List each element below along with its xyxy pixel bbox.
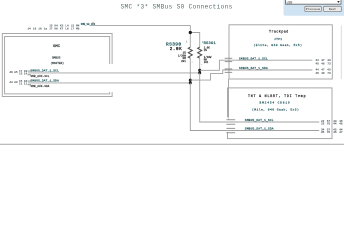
svg-text:(Mile, 840 Gaab, 5x5): (Mile, 840 Gaab, 5x5) [252,108,299,112]
pin stub marks row2 [27,80,31,83]
top pin numbers of GMC [28,25,80,31]
node: SCL at RS391 (in) [198,71,201,74]
svg-text:76: 76 [327,131,331,134]
svg-text:46: 46 [321,72,325,75]
svg-text:JTP1: JTP1 [274,38,282,41]
svg-text:73: 73 [327,62,331,65]
svg-text:A5: A5 [14,71,18,74]
svg-text:L7: L7 [71,27,75,30]
svg-text:1a: 1a [44,27,48,30]
svg-text:A6: A6 [10,71,14,74]
svg-text:76: 76 [327,123,331,126]
svg-text:TNT & NLBRT, TDI Temp: TNT & NLBRT, TDI Temp [248,94,306,98]
svg-text:Trackpad: Trackpad [269,29,289,34]
border break at port area [108,64,113,92]
button Next [324,6,342,11]
node: SCL at RS391 (out) [198,69,201,72]
svg-text:45: 45 [316,62,320,65]
svg-text:23: 23 [321,123,325,126]
toolbar panel (top right) [284,0,344,16]
node: junction on top rail [189,31,192,34]
svg-text:44: 44 [333,123,337,126]
wire: SCL across sensor border [224,121,232,123]
svg-text:I2: I2 [24,82,28,85]
svg-text:16: 16 [38,27,42,30]
svg-text:I3: I3 [19,72,23,75]
GMC row2 pin numbers [10,80,28,86]
svg-text:SMBUS_DAT_1_SCL: SMBUS_DAT_1_SCL [239,58,268,61]
pin tap marks trackpad row1 [225,57,233,60]
svg-text:J7: J7 [49,27,53,30]
dropdown select [286,0,342,4]
border break at sensor port area [227,117,229,132]
pin tap marks sensor row1 [226,118,235,121]
svg-text:2.0K: 2.0K [170,48,182,52]
svg-text:SMBUS_DAT_1_SDA: SMBUS_DAT_1_SDA [239,67,268,70]
svg-text:16: 16 [33,27,37,30]
wire: SDA jog to Trackpad [190,70,312,80]
svg-text:SMBUS_DAT_1_SDA: SMBUS_DAT_1_SDA [245,128,274,131]
trackpad box shadow edge [340,26,342,80]
svg-text:1%: 1% [204,49,208,52]
svg-text:45: 45 [316,72,320,75]
wire: RS390 bottom lead [189,58,191,83]
sheet border bottom [0,143,344,145]
svg-text:RS391: RS391 [204,42,217,46]
svg-text:K6: K6 [55,27,59,30]
svg-text:201: 201 [204,61,209,64]
GMC row1 pin numbers [10,70,28,76]
svg-text:SMBUS_DAT_1_SDA: SMBUS_DAT_1_SDA [31,79,60,82]
svg-text:SMBUS_DAT_1_SCL: SMBUS_DAT_1_SCL [31,69,60,72]
svg-text:SMB_AUX-SDA: SMB_AUX-SDA [31,85,50,88]
svg-text:L6: L6 [65,27,69,30]
GMC block U1 (double border) [2,34,112,97]
svg-text:SMBUS_DAT_1_SCL: SMBUS_DAT_1_SCL [245,119,274,122]
svg-text:A4: A4 [10,81,14,84]
wire: RS391 bottom lead [199,58,201,73]
svg-text:35: 35 [321,131,325,134]
wire: SDA from GMC to RS390 [28,82,190,84]
svg-text:uSB: uSB [287,0,293,4]
wire: SCL drop to thermal sensor [200,73,320,122]
svg-text:A3: A3 [14,81,18,84]
thermal sensor box [228,88,333,139]
node: SDA at RS390 (in) [189,81,192,84]
svg-text:Next: Next [329,8,336,11]
node: SDA at RS390 (out) [189,79,192,82]
tick mark at wire start [92,23,94,24]
svg-text:GMC: GMC [53,45,61,49]
wire: SDA across sensor border [224,130,232,132]
wire: SCL jog to Trackpad [200,60,313,70]
svg-text:73: 73 [327,72,331,75]
sensor row1 pin numbers [321,120,343,126]
wire: top rail from GMC to resistors [90,25,200,47]
svg-text:M6: M6 [76,27,80,30]
svg-text:Previous: Previous [306,7,321,11]
Trackpad connector box [229,25,332,79]
trackpad row2 pin numbers [316,69,331,75]
svg-text:46: 46 [339,123,343,126]
svg-text:SMC *3* SMBus S0 Connections: SMC *3* SMBus S0 Connections [121,3,233,10]
svg-text:BM2454 CD810: BM2454 CD810 [260,102,291,105]
pin tap marks sensor row2 [226,127,235,130]
svg-text:14: 14 [28,27,32,30]
page background [0,0,344,150]
svg-text:K7: K7 [60,27,64,30]
svg-text:(Elite, 840 Gaab, 5x5): (Elite, 840 Gaab, 5x5) [254,43,303,47]
svg-text:SMBUS: SMBUS [52,57,61,60]
resistor RS391 [198,41,217,64]
svg-text:SMB_AUX-SCL: SMB_AUX-SCL [31,75,50,78]
svg-text:46: 46 [321,62,325,65]
resistor RS390 [166,41,192,64]
svg-text:47: 47 [339,131,343,134]
pin stub marks row1 [27,70,31,73]
pin tap marks trackpad row2 [225,68,233,71]
wire: SDA drop to thermal sensor [190,83,319,131]
wire: SCL from GMC to RS391 [28,72,200,74]
svg-text:46: 46 [333,131,337,134]
svg-text:201: 201 [181,60,186,63]
svg-text:I4: I4 [24,72,28,75]
button Previous [305,6,322,11]
svg-text:I1: I1 [19,82,23,85]
svg-text:(MASTER): (MASTER) [51,61,65,65]
trackpad row1 pin numbers [316,59,331,65]
wire: link from trackpad bottom to sensor box [228,79,230,119]
sensor row2 pin numbers [321,128,343,134]
svg-text:RS390: RS390 [166,42,182,48]
